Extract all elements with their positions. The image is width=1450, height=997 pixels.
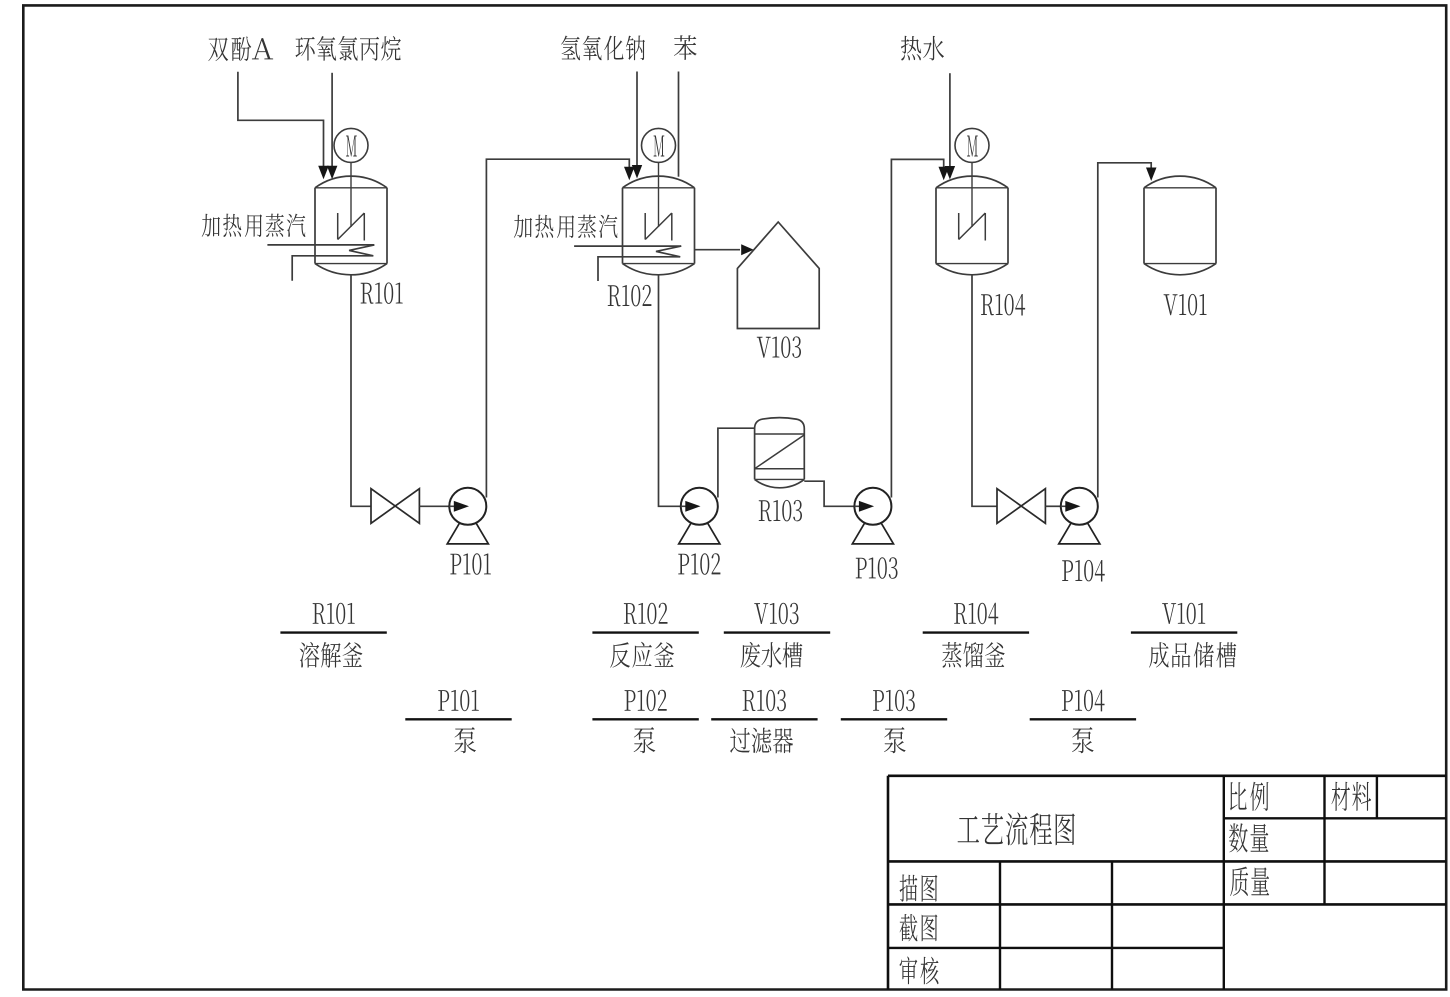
wire R102 overflow to V103 bbox=[695, 249, 741, 251]
label P104 at pump bbox=[1062, 560, 1073, 581]
wire 双酚A feed to R101 bbox=[238, 72, 324, 167]
stream label 双酚A bbox=[208, 38, 228, 62]
reactor R102 vessel bbox=[623, 176, 695, 188]
label R104 at vessel bbox=[981, 294, 994, 315]
pump P102 bbox=[681, 488, 718, 525]
arrowhead P103 line into R104 bbox=[939, 167, 950, 181]
label 加热用蒸汽 (R101) bbox=[202, 214, 220, 237]
equipment label V103 废水槽 bbox=[754, 603, 768, 624]
table label 材料 bbox=[1331, 782, 1349, 811]
equipment label R102 反应釜 bbox=[624, 603, 637, 624]
steam heating coil R101 bbox=[267, 244, 374, 246]
pump P101 bbox=[449, 488, 486, 525]
label P102 at pump bbox=[678, 554, 689, 575]
equipment label R104 蒸馏釜 bbox=[954, 603, 967, 624]
equipment label R101 溶解釜 bbox=[313, 603, 326, 624]
waste water tank V103 (house shape) bbox=[737, 222, 819, 329]
stream label 热水 bbox=[901, 36, 921, 61]
wire valve to pump P101 bbox=[419, 505, 449, 507]
wire 环氧氯丙烷 feed to R101 bbox=[331, 73, 333, 167]
equipment label P102 泵 bbox=[625, 690, 636, 711]
wire R101 outlet to valve bbox=[351, 275, 371, 507]
label 加热用蒸汽 (R102) bbox=[514, 215, 532, 238]
label R102 at vessel bbox=[608, 285, 621, 306]
valve on R104 outlet bbox=[997, 489, 1045, 524]
wire R102 outlet to pump P102 bbox=[659, 275, 681, 507]
reactor R104 vessel bbox=[936, 176, 1008, 188]
label R103 at filter bbox=[759, 500, 772, 521]
equipment label P103 泵 bbox=[873, 690, 884, 711]
arrowhead 环氧氯丙烷 into R101 bbox=[327, 166, 338, 180]
equipment label R103 过滤器 bbox=[743, 690, 756, 711]
arrowhead recycle into R102 bbox=[624, 167, 635, 181]
equipment label P101 泵 bbox=[438, 690, 449, 711]
filter R103 bbox=[755, 418, 805, 434]
label V103 at tank bbox=[757, 337, 771, 358]
label P101 at pump bbox=[450, 554, 461, 575]
arrowhead 氢氧化钠 into R102 bbox=[632, 165, 642, 179]
wire 苯 feed to R102 bbox=[678, 72, 680, 177]
wire P101 discharge to R102 bbox=[486, 159, 629, 497]
arrowhead into V103 bbox=[741, 244, 754, 255]
stream label 氢氧化钠 bbox=[561, 36, 580, 61]
wire R104 outlet to valve bbox=[972, 275, 997, 507]
label P103 at pump bbox=[856, 558, 867, 579]
label V101 at tank bbox=[1164, 294, 1178, 315]
table label 描图 bbox=[900, 874, 918, 901]
product tank V101 vessel bbox=[1144, 176, 1216, 188]
motor M on R101 bbox=[334, 128, 368, 162]
wire 氢氧化钠 feed to R102 bbox=[636, 72, 638, 166]
table label 数量 bbox=[1229, 823, 1248, 852]
arrowhead 双酚A into R101 bbox=[318, 166, 329, 180]
title block table bbox=[888, 774, 1446, 777]
pump P103 bbox=[854, 488, 891, 525]
motor M on R102 bbox=[642, 128, 676, 162]
motor M on R104 bbox=[955, 128, 989, 162]
reactor R101 vessel bbox=[315, 176, 387, 188]
valve on R101 outlet bbox=[371, 489, 419, 524]
arrowhead 热水 into R104 bbox=[945, 166, 956, 180]
wire P104 discharge to V101 bbox=[1098, 163, 1151, 498]
wire P103 discharge to R104 bbox=[891, 159, 943, 497]
table label 审核 bbox=[900, 957, 918, 985]
steam heating coil R102 bbox=[574, 245, 681, 247]
table label 质量 bbox=[1230, 867, 1248, 896]
table label 比例 bbox=[1230, 782, 1247, 810]
stream label 环氧氯丙烷 bbox=[295, 37, 314, 61]
equipment label V101 成品储槽 bbox=[1162, 603, 1176, 624]
equipment label P104 泵 bbox=[1062, 690, 1073, 711]
pump P104 bbox=[1061, 488, 1098, 525]
wire R103 outlet to pump P103 bbox=[804, 481, 854, 506]
wire 热水 feed to R104 bbox=[949, 73, 951, 166]
title text 工艺流程图 bbox=[958, 816, 979, 842]
wire P102 discharge to filter R103 bbox=[718, 428, 755, 497]
wire valve to pump P104 bbox=[1045, 505, 1060, 507]
stream label 苯 bbox=[674, 35, 697, 60]
label R101 at vessel bbox=[361, 283, 374, 304]
table label 截图 bbox=[900, 914, 918, 941]
arrowhead into V101 bbox=[1146, 168, 1157, 182]
